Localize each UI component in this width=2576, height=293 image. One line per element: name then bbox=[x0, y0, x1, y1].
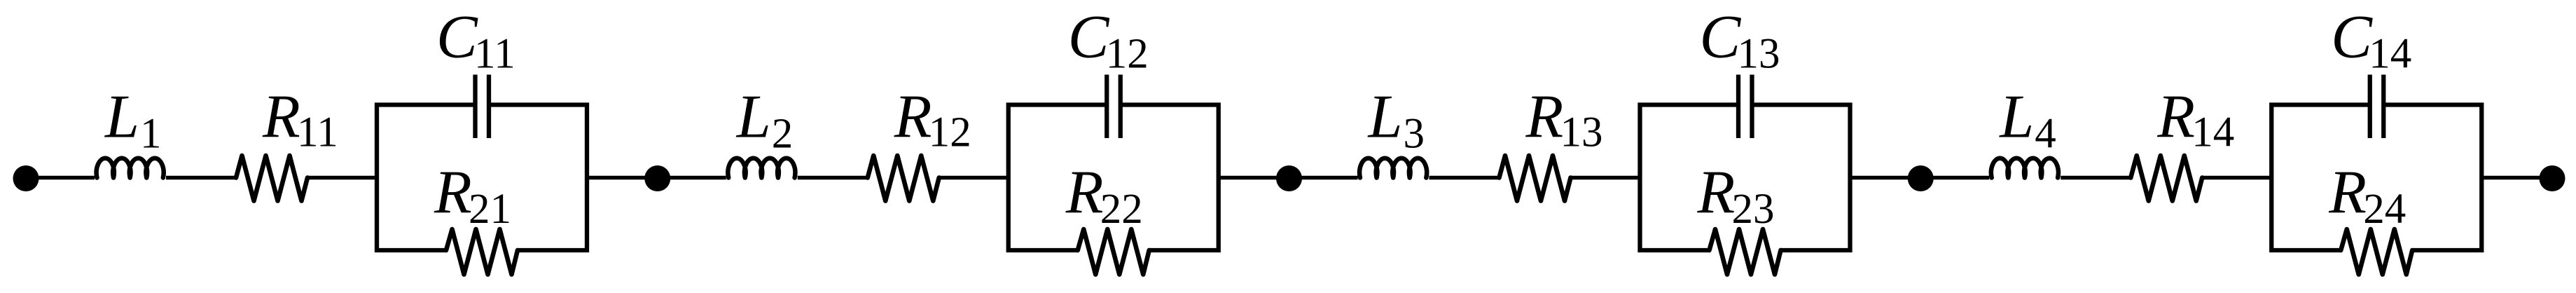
svg-text:C: C bbox=[1700, 3, 1742, 71]
svg-text:L: L bbox=[735, 83, 771, 151]
svg-text:21: 21 bbox=[469, 186, 511, 233]
svg-text:12: 12 bbox=[929, 109, 971, 156]
svg-text:R: R bbox=[894, 83, 932, 151]
svg-text:L: L bbox=[1367, 83, 1403, 151]
svg-text:24: 24 bbox=[2363, 186, 2406, 233]
svg-text:11: 11 bbox=[297, 109, 338, 156]
svg-text:22: 22 bbox=[1100, 186, 1143, 233]
svg-text:2: 2 bbox=[772, 111, 794, 158]
svg-text:13: 13 bbox=[1738, 30, 1780, 77]
svg-text:R: R bbox=[1697, 159, 1736, 227]
svg-text:13: 13 bbox=[1560, 109, 1603, 156]
svg-text:23: 23 bbox=[1732, 186, 1775, 233]
svg-text:3: 3 bbox=[1404, 111, 1425, 158]
svg-text:C: C bbox=[1068, 3, 1110, 71]
svg-text:L: L bbox=[104, 83, 139, 151]
svg-text:14: 14 bbox=[2369, 30, 2411, 77]
svg-text:11: 11 bbox=[474, 30, 515, 77]
svg-text:R: R bbox=[262, 83, 300, 151]
svg-text:R: R bbox=[434, 159, 472, 227]
svg-text:R: R bbox=[2328, 159, 2367, 227]
svg-text:C: C bbox=[2331, 3, 2373, 71]
svg-text:4: 4 bbox=[2035, 111, 2056, 158]
svg-text:R: R bbox=[2156, 83, 2195, 151]
svg-text:14: 14 bbox=[2191, 109, 2234, 156]
svg-text:R: R bbox=[1525, 83, 1564, 151]
svg-text:L: L bbox=[1998, 83, 2034, 151]
svg-text:1: 1 bbox=[140, 111, 162, 158]
svg-text:R: R bbox=[1065, 159, 1104, 227]
svg-text:C: C bbox=[436, 3, 478, 71]
svg-text:12: 12 bbox=[1106, 30, 1149, 77]
